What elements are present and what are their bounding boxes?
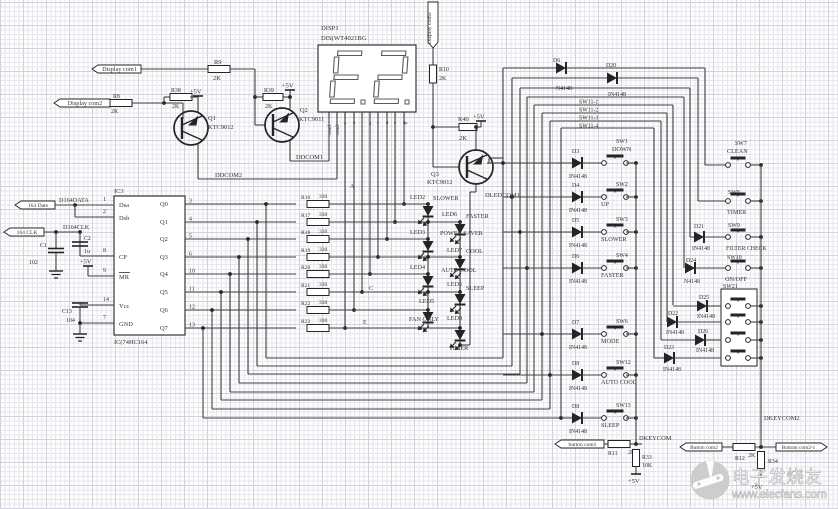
svg-text:Q1: Q1 xyxy=(208,115,216,122)
svg-text:IN4148: IN4148 xyxy=(696,348,714,354)
svg-text:2K: 2K xyxy=(459,135,467,142)
svg-text:102: 102 xyxy=(29,260,38,266)
svg-text:8: 8 xyxy=(103,248,106,254)
svg-text:R38: R38 xyxy=(171,88,181,94)
svg-text:DISP1: DISP1 xyxy=(321,25,339,32)
svg-text:+5V: +5V xyxy=(473,114,485,121)
svg-text:IC(74HC164: IC(74HC164 xyxy=(114,339,148,346)
svg-text:com2: com2 xyxy=(336,124,341,135)
svg-text:R8: R8 xyxy=(113,94,120,100)
svg-text:IN4148: IN4148 xyxy=(569,208,587,214)
svg-text:164 Date: 164 Date xyxy=(28,203,49,209)
svg-text:Dsa: Dsa xyxy=(119,202,129,209)
svg-text:SLOWER: SLOWER xyxy=(601,236,627,243)
svg-text:SW7: SW7 xyxy=(735,141,747,147)
svg-text:1: 1 xyxy=(103,197,106,203)
svg-text:N4148: N4148 xyxy=(556,86,572,92)
svg-text:D26: D26 xyxy=(698,329,708,335)
svg-text:2K: 2K xyxy=(439,76,447,82)
svg-text:SW11-1: SW11-1 xyxy=(579,100,598,106)
svg-text:DLEDCOM1: DLEDCOM1 xyxy=(485,192,520,199)
svg-text:14: 14 xyxy=(103,297,109,303)
svg-text:IN4148: IN4148 xyxy=(569,345,587,351)
svg-text:D8: D8 xyxy=(572,404,579,410)
svg-text:SLOWER: SLOWER xyxy=(433,195,459,202)
svg-text:SW10: SW10 xyxy=(727,255,742,261)
svg-text:D24: D24 xyxy=(686,258,696,264)
svg-text:IN4148: IN4148 xyxy=(692,246,710,252)
svg-text:D5: D5 xyxy=(572,218,579,224)
svg-text:330: 330 xyxy=(319,229,328,235)
svg-text:R10: R10 xyxy=(439,67,449,73)
svg-text:Q0: Q0 xyxy=(160,201,168,208)
svg-text:Display com1: Display com1 xyxy=(102,66,137,73)
svg-text:com1: com1 xyxy=(328,124,333,135)
svg-text:Q5: Q5 xyxy=(160,289,168,296)
svg-text:R33: R33 xyxy=(642,455,652,461)
svg-text:1u: 1u xyxy=(84,249,90,255)
svg-text:FASTER: FASTER xyxy=(601,272,624,279)
svg-text:SW21: SW21 xyxy=(723,284,738,290)
svg-text:C: C xyxy=(369,286,373,292)
svg-text:164 CLK: 164 CLK xyxy=(17,230,38,236)
svg-text:D20: D20 xyxy=(606,63,616,69)
svg-text:D21: D21 xyxy=(694,224,704,230)
svg-text:FAN ONLY: FAN ONLY xyxy=(409,316,440,323)
svg-text:SLEEP: SLEEP xyxy=(601,422,620,429)
svg-text:R23: R23 xyxy=(301,319,310,325)
svg-text:R39: R39 xyxy=(264,88,274,94)
svg-text:2K: 2K xyxy=(213,75,221,82)
svg-text:D23: D23 xyxy=(664,345,674,351)
svg-text:LED2: LED2 xyxy=(410,194,425,201)
svg-text:IN4148: IN4148 xyxy=(569,174,587,180)
svg-text:R9: R9 xyxy=(214,59,221,66)
svg-text:Bottom com2-1: Bottom com2-1 xyxy=(782,445,816,451)
svg-text:ON/OFF: ON/OFF xyxy=(725,276,748,283)
svg-text:DDCOM1: DDCOM1 xyxy=(296,154,323,161)
svg-text:IN4148: IN4148 xyxy=(608,92,626,98)
svg-text:D164CLK: D164CLK xyxy=(63,224,90,231)
svg-text:SW9: SW9 xyxy=(728,223,740,229)
svg-text:+5V: +5V xyxy=(190,89,202,96)
svg-text:FASTER: FASTER xyxy=(466,213,489,220)
svg-text:DOWN: DOWN xyxy=(612,146,632,153)
svg-text:E: E xyxy=(363,320,367,326)
svg-text:R21: R21 xyxy=(301,283,310,289)
svg-text:330: 330 xyxy=(319,300,328,306)
svg-text:Q2: Q2 xyxy=(300,107,308,114)
svg-text:KTC9012: KTC9012 xyxy=(427,179,453,186)
svg-text:2K: 2K xyxy=(111,109,119,115)
svg-text:D164DATA: D164DATA xyxy=(59,197,89,204)
svg-text:2: 2 xyxy=(103,209,106,215)
svg-text:Q2: Q2 xyxy=(160,236,168,243)
svg-text:330: 330 xyxy=(319,282,328,288)
svg-text:COOL: COOL xyxy=(466,248,483,255)
svg-text:330: 330 xyxy=(319,212,328,218)
svg-text:Vcc: Vcc xyxy=(119,303,129,310)
svg-text:D4: D4 xyxy=(572,183,579,189)
svg-text:C1: C1 xyxy=(40,243,47,249)
svg-text:104: 104 xyxy=(66,318,75,324)
svg-text:SW2: SW2 xyxy=(616,182,628,188)
svg-text:R16: R16 xyxy=(301,195,310,201)
svg-text:Q3: Q3 xyxy=(160,254,168,261)
svg-text:CLEAN: CLEAN xyxy=(727,148,748,155)
svg-text:D7: D7 xyxy=(572,320,579,326)
svg-text:D25: D25 xyxy=(699,295,709,301)
svg-text:SLEEP: SLEEP xyxy=(466,285,485,292)
svg-text:R19: R19 xyxy=(301,248,310,254)
svg-text:2K: 2K xyxy=(265,104,273,110)
svg-text:+5V: +5V xyxy=(282,83,294,90)
svg-text:SW1: SW1 xyxy=(616,139,628,145)
svg-text:MR: MR xyxy=(119,274,130,281)
svg-text:330: 330 xyxy=(319,194,328,200)
svg-text:Q3: Q3 xyxy=(431,171,439,178)
svg-text:7: 7 xyxy=(103,315,106,321)
svg-text:IN4148: IN4148 xyxy=(569,386,587,392)
svg-text:9: 9 xyxy=(103,268,106,274)
svg-text:N4148: N4148 xyxy=(684,279,700,285)
svg-text:MODE: MODE xyxy=(601,338,619,345)
svg-text:+5V: +5V xyxy=(80,259,92,266)
svg-text:button com1: button com1 xyxy=(569,442,597,448)
svg-text:IC3: IC3 xyxy=(114,188,124,195)
svg-text:SW4: SW4 xyxy=(616,253,628,259)
svg-text:TIMER: TIMER xyxy=(727,209,747,216)
svg-text:SW13: SW13 xyxy=(616,403,631,409)
svg-text:DIS(WT4021BG: DIS(WT4021BG xyxy=(321,35,367,42)
svg-text:SW12: SW12 xyxy=(616,360,631,366)
svg-text:IN4148: IN4148 xyxy=(697,314,715,320)
svg-text:SW11-3: SW11-3 xyxy=(579,116,598,122)
svg-text:IN4148: IN4148 xyxy=(666,330,684,336)
svg-text:R11: R11 xyxy=(608,451,618,457)
svg-text:D22: D22 xyxy=(668,311,678,317)
svg-text:LED6: LED6 xyxy=(442,211,457,218)
svg-text:AUTO COOL: AUTO COOL xyxy=(441,267,477,274)
svg-text:LED3: LED3 xyxy=(410,229,425,236)
svg-text:D8: D8 xyxy=(572,361,579,367)
svg-text:330: 330 xyxy=(319,318,328,324)
svg-text:R40: R40 xyxy=(458,116,469,123)
svg-text:C13: C13 xyxy=(62,309,72,315)
svg-text:GND: GND xyxy=(119,321,133,328)
svg-text:IN4148: IN4148 xyxy=(663,367,681,373)
svg-text:IN4148: IN4148 xyxy=(569,429,587,435)
svg-text:R22: R22 xyxy=(301,301,310,307)
svg-text:Display com3: Display com3 xyxy=(427,12,433,44)
svg-text:SW11-4: SW11-4 xyxy=(579,124,598,130)
svg-text:10K: 10K xyxy=(642,463,653,469)
svg-text:330: 330 xyxy=(319,247,328,253)
svg-text:Q1: Q1 xyxy=(160,219,168,226)
svg-text:330: 330 xyxy=(319,264,328,270)
svg-text:R12: R12 xyxy=(735,456,745,462)
svg-text:LED5: LED5 xyxy=(447,281,462,288)
svg-text:Dsb: Dsb xyxy=(119,215,129,222)
svg-text:AUTO COOL: AUTO COOL xyxy=(601,379,637,386)
svg-text:SW11-2: SW11-2 xyxy=(579,108,598,114)
svg-text:R20: R20 xyxy=(301,265,310,271)
svg-text:DKEYCOM2: DKEYCOM2 xyxy=(764,415,800,422)
svg-text:KTC9011: KTC9011 xyxy=(299,116,324,123)
svg-text:LED7: LED7 xyxy=(447,247,462,254)
svg-text:Button com2: Button com2 xyxy=(690,445,718,451)
svg-text:SW6: SW6 xyxy=(616,319,628,325)
svg-text:DDCOM2: DDCOM2 xyxy=(215,172,242,179)
svg-text:LED8: LED8 xyxy=(447,315,462,322)
svg-text:IN4148: IN4148 xyxy=(569,243,587,249)
svg-text:POWER SAVER: POWER SAVER xyxy=(440,230,484,237)
svg-text:R18: R18 xyxy=(301,230,310,236)
svg-text:2K: 2K xyxy=(748,453,756,459)
svg-text:IN4148: IN4148 xyxy=(569,279,587,285)
svg-text:Q4: Q4 xyxy=(160,271,169,278)
svg-text:R17: R17 xyxy=(301,213,310,219)
svg-text:CP: CP xyxy=(119,254,127,261)
svg-text:SW8: SW8 xyxy=(728,190,740,196)
svg-text:+5V: +5V xyxy=(628,478,640,485)
svg-text:UP: UP xyxy=(601,201,609,208)
svg-text:DKEYCOM: DKEYCOM xyxy=(639,435,672,442)
svg-text:KTC9012: KTC9012 xyxy=(208,124,234,131)
svg-text:SW3: SW3 xyxy=(616,217,628,223)
svg-text:Q7: Q7 xyxy=(160,325,169,332)
svg-text:D6: D6 xyxy=(572,254,579,260)
svg-text:LED5: LED5 xyxy=(419,298,434,305)
svg-text:D6: D6 xyxy=(553,58,560,64)
svg-text:LED4: LED4 xyxy=(410,264,425,271)
svg-text:D3: D3 xyxy=(572,149,579,155)
svg-text:Q6: Q6 xyxy=(160,307,169,314)
svg-text:C2: C2 xyxy=(84,236,91,242)
svg-text:2K: 2K xyxy=(172,104,180,110)
svg-text:Display com2: Display com2 xyxy=(68,100,103,107)
